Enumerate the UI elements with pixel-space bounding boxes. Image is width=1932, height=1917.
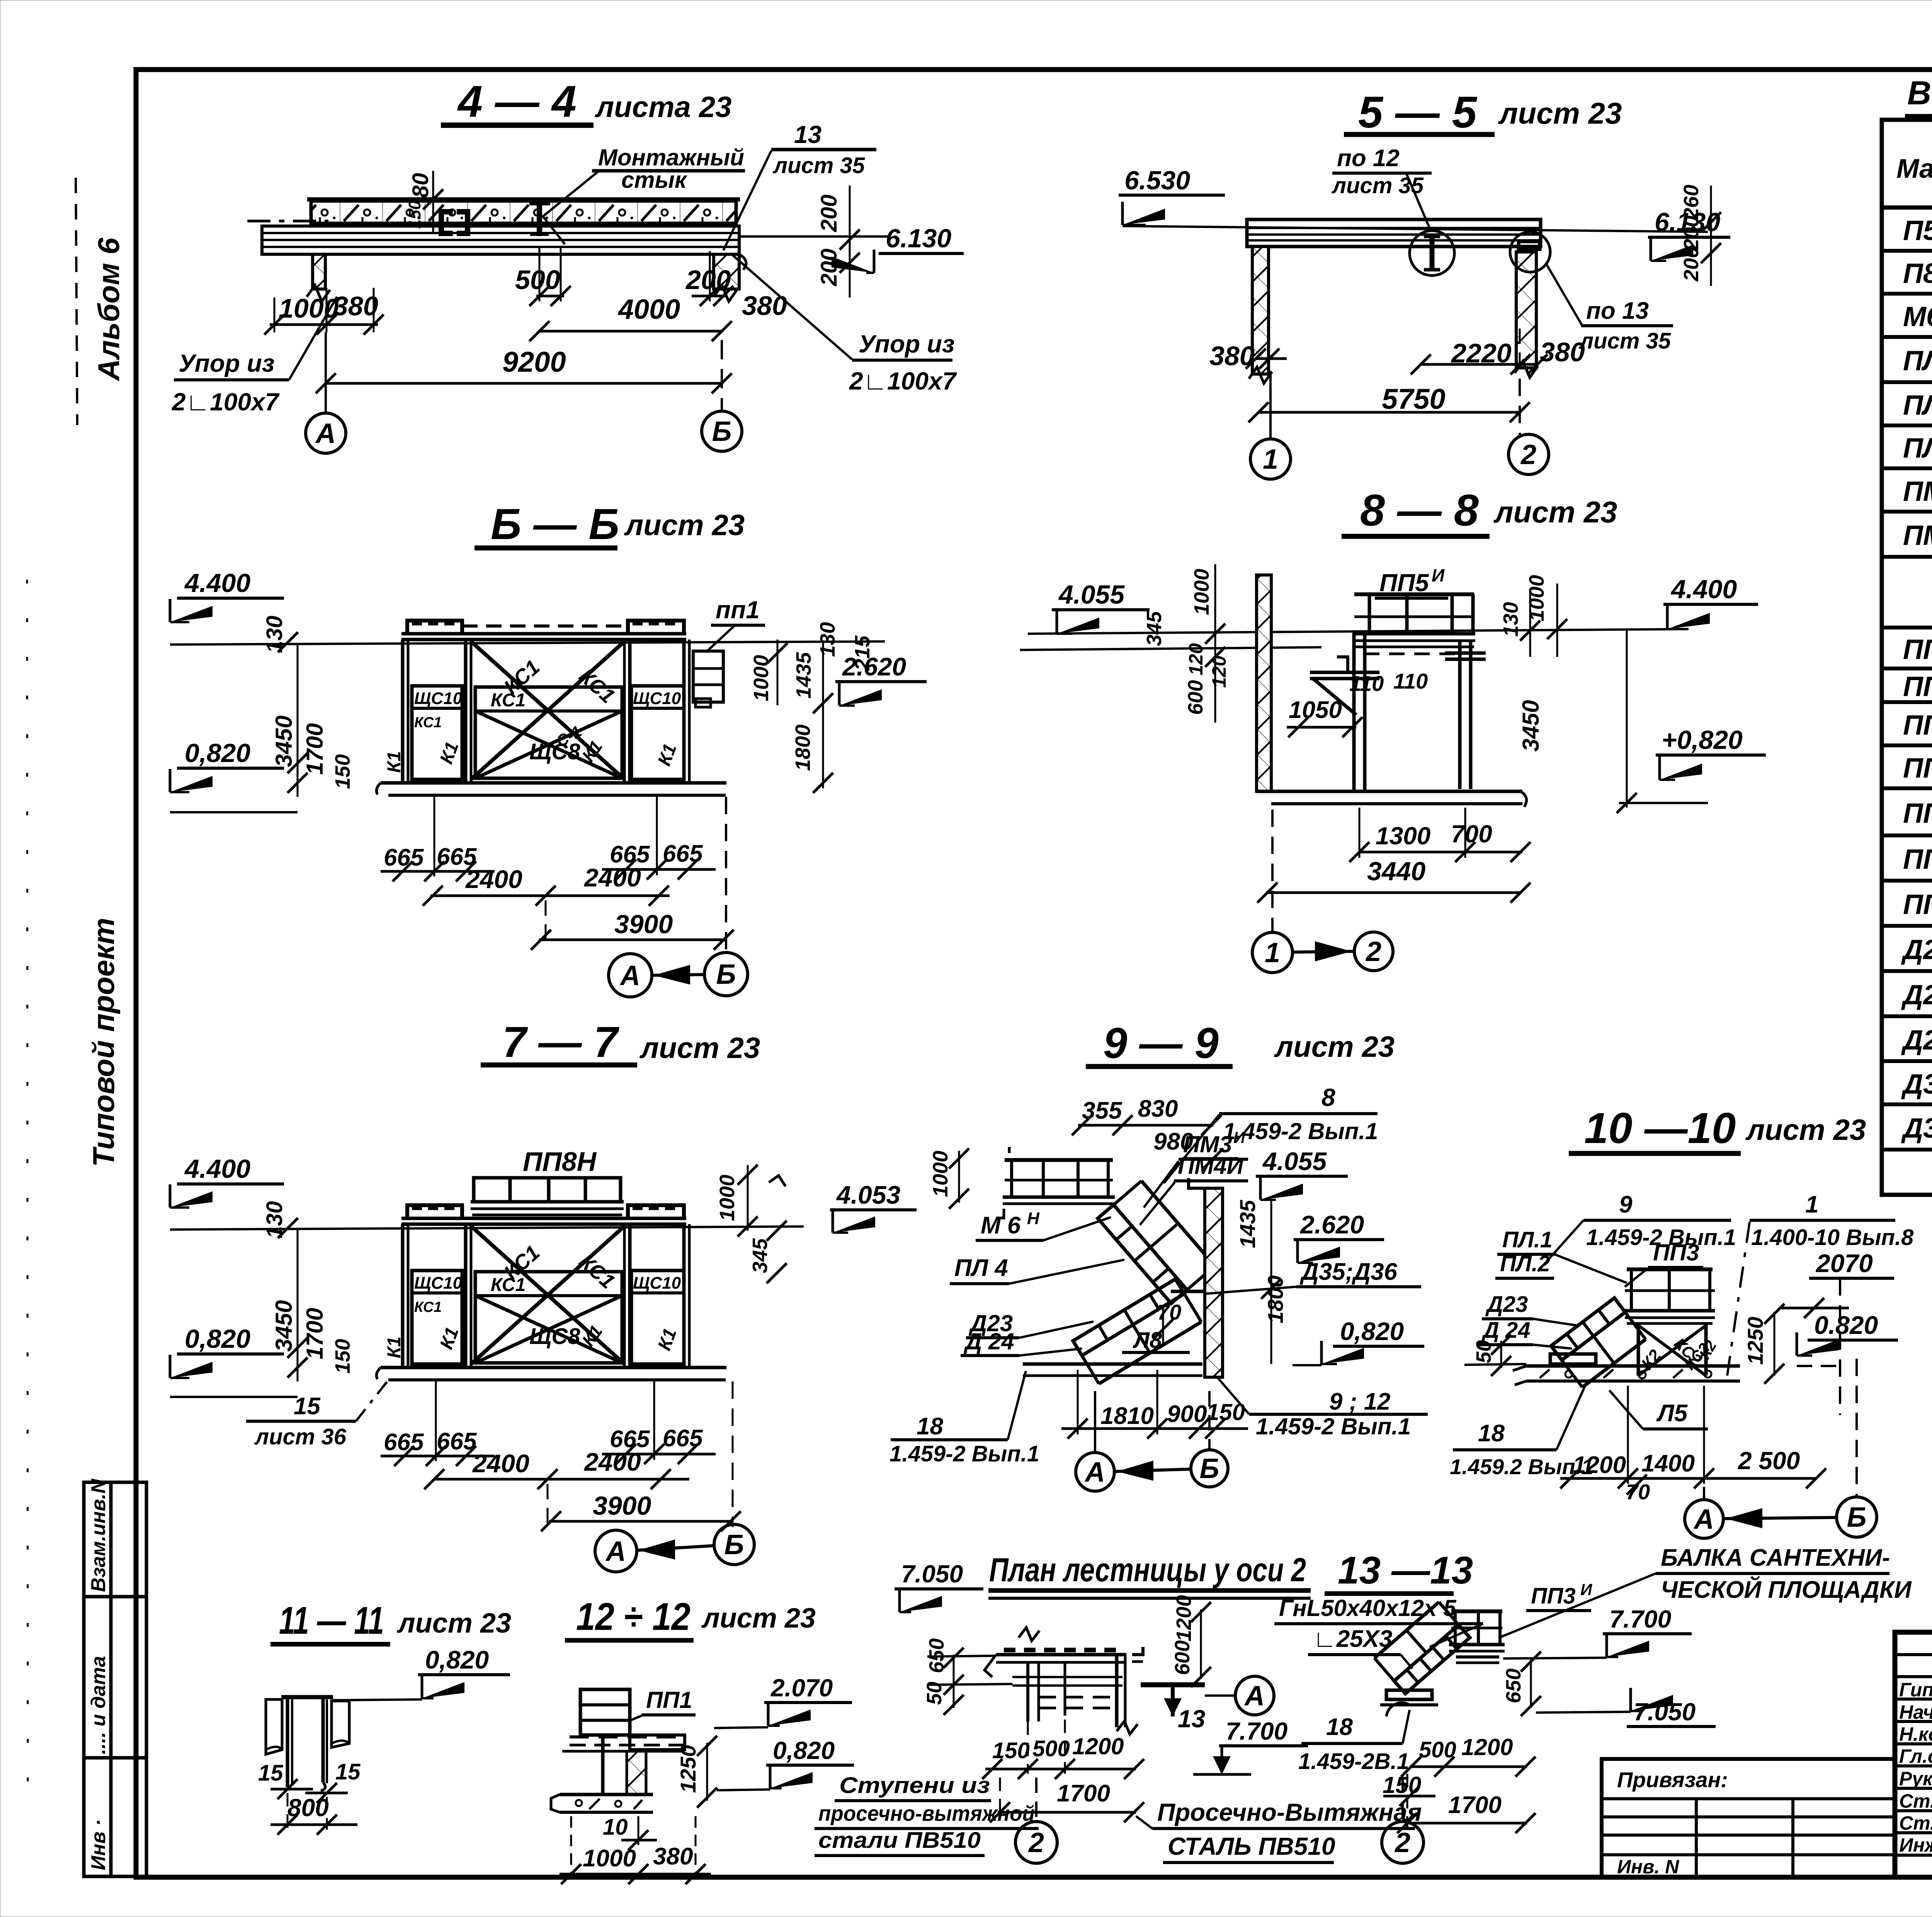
svg-text:ПП10: ПП10	[1903, 889, 1932, 920]
axis circles	[1094, 1391, 1096, 1452]
middle cell box ЩС8	[475, 687, 622, 778]
plan drawing: deck strip with steps	[996, 1653, 1126, 1657]
svg-text:Привязан:: Привязан:	[1617, 1767, 1728, 1792]
svg-text:3440: 3440	[1367, 857, 1425, 886]
level line top	[170, 641, 885, 645]
svg-text:2: 2	[1520, 439, 1536, 470]
svg-text:по 13: по 13	[1586, 298, 1649, 324]
svg-text:1.459-2 Вып.1: 1.459-2 Вып.1	[1223, 1118, 1378, 1144]
svg-text:Инв. N: Инв. N	[1617, 1856, 1679, 1878]
svg-text:380: 380	[1540, 337, 1585, 367]
svg-text:ПМ4ч: ПМ4ч	[1903, 518, 1932, 551]
svg-text:1700: 1700	[1057, 1780, 1110, 1807]
svg-text:600: 600	[1184, 680, 1207, 715]
svg-text:1810: 1810	[1100, 1403, 1154, 1429]
middle cell box	[475, 1272, 622, 1363]
svg-text:ПЛ1: ПЛ1	[1903, 345, 1932, 376]
svg-text:0,820: 0,820	[185, 1324, 250, 1354]
svg-text:КС1: КС1	[491, 1275, 526, 1295]
svg-text:Н: Н	[1027, 1209, 1040, 1228]
svg-text:2070: 2070	[1815, 1249, 1873, 1277]
svg-text:1700: 1700	[302, 723, 328, 775]
wall hatched	[1257, 575, 1271, 791]
svg-text:А: А	[1244, 1681, 1265, 1711]
svg-text:6.130: 6.130	[886, 224, 951, 253]
right column hatched	[1516, 252, 1536, 368]
axis circles	[1703, 1487, 1705, 1499]
big X brace KC1	[471, 641, 624, 779]
axis circle 2	[1401, 1778, 1404, 1821]
svg-text:1800: 1800	[791, 725, 815, 771]
landing platform right	[1451, 1609, 1502, 1613]
axis circles А Б	[545, 900, 547, 945]
flight lower end pad	[1550, 1354, 1596, 1364]
svg-text:6.530: 6.530	[1124, 166, 1190, 195]
svg-text:лист 23: лист 23	[701, 1603, 816, 1634]
svg-text:18: 18	[1478, 1420, 1505, 1447]
svg-text:ЩС10: ЩС10	[414, 1274, 463, 1293]
svg-text:Б: Б	[712, 416, 732, 447]
mid landing small	[1171, 1290, 1205, 1293]
svg-text:200: 200	[816, 194, 842, 232]
left cell box ЩС10	[412, 686, 462, 779]
svg-text:Марка: Марка	[1896, 153, 1932, 184]
vertical post in box	[601, 1735, 605, 1795]
svg-text:13: 13	[794, 121, 821, 148]
level line right of beam	[739, 235, 889, 238]
base lines	[381, 781, 726, 785]
ground line	[1023, 1362, 1202, 1366]
svg-text:18: 18	[917, 1413, 943, 1440]
svg-text:1800: 1800	[1263, 1275, 1287, 1323]
svg-text:Гл.спец.: Гл.спец.	[1899, 1745, 1932, 1767]
svg-text:ПП1: ПП1	[1903, 634, 1932, 665]
svg-text:11 — 11: 11 — 11	[279, 1599, 384, 1642]
svg-text:ПП5ч: ПП5ч	[1903, 796, 1932, 829]
svg-text:200: 200	[1680, 247, 1703, 282]
base lines	[381, 1366, 726, 1369]
svg-text:Нач.отд: Нач.отд	[1899, 1701, 1932, 1723]
left margin tick marks	[76, 178, 77, 425]
svg-text:ЩС10: ЩС10	[633, 1274, 681, 1293]
svg-text:200: 200	[1680, 216, 1703, 251]
svg-text:1: 1	[1263, 444, 1278, 475]
svg-text:2: 2	[1365, 936, 1381, 967]
svg-text:2: 2	[1394, 1827, 1410, 1858]
left column hatched	[1252, 247, 1269, 374]
svg-text:А: А	[1693, 1504, 1714, 1535]
svg-text:стали ПВ510: стали ПВ510	[818, 1828, 981, 1853]
svg-text:2400: 2400	[583, 1448, 641, 1476]
svg-text:пп1: пп1	[716, 596, 760, 624]
svg-text:2∟100х7: 2∟100х7	[849, 367, 957, 395]
beam band	[1247, 219, 1541, 247]
stair flight	[1551, 1298, 1625, 1360]
svg-text:1000: 1000	[716, 1175, 739, 1221]
big X brace	[471, 1226, 624, 1364]
svg-text:1400: 1400	[1641, 1450, 1695, 1477]
section marker 13 left	[1141, 1682, 1205, 1687]
top chord	[401, 632, 686, 636]
svg-text:665: 665	[663, 1425, 703, 1452]
axis circle 2	[1035, 1778, 1037, 1821]
svg-text:П8: П8	[1903, 258, 1932, 289]
svg-text:просечно-вытяжной: просечно-вытяжной	[818, 1801, 1035, 1825]
svg-text:по 12: по 12	[1337, 145, 1400, 172]
hatched concrete right	[332, 1701, 349, 1747]
svg-text:ПМ3и: ПМ3и	[1903, 474, 1932, 507]
svg-text:1000: 1000	[1525, 575, 1548, 621]
svg-text:15: 15	[258, 1761, 283, 1786]
svg-text:∟25Х3: ∟25Х3	[1313, 1626, 1393, 1652]
svg-text:1435: 1435	[792, 652, 815, 699]
channel top flange	[281, 1695, 333, 1699]
svg-text:665: 665	[663, 840, 703, 867]
svg-text:2: 2	[1028, 1827, 1044, 1858]
left support column hatched	[313, 254, 325, 289]
svg-text:150: 150	[331, 1339, 354, 1374]
svg-text:ПП3ч: ПП3ч	[1903, 750, 1932, 784]
svg-text:ПП3: ПП3	[1903, 710, 1932, 741]
svg-text:70: 70	[1157, 1300, 1181, 1324]
svg-text:ПЛ 4: ПЛ 4	[954, 1255, 1008, 1281]
svg-text:лист 23: лист 23	[397, 1608, 511, 1639]
svg-text:Д35;Д36: Д35;Д36	[1299, 1259, 1398, 1285]
svg-text:2∟100х7: 2∟100х7	[172, 388, 280, 416]
svg-text:18: 18	[1326, 1714, 1353, 1740]
svg-text:лист 23: лист 23	[624, 509, 745, 542]
svg-text:Альбом 6: Альбом 6	[92, 238, 126, 381]
svg-text:ЩС10: ЩС10	[414, 689, 463, 708]
svg-text:150: 150	[992, 1738, 1030, 1763]
svg-text:ПЛ2: ПЛ2	[1903, 390, 1932, 421]
svg-text:2 500: 2 500	[1738, 1447, 1800, 1475]
svg-text:Просечно-Вытяжная: Просечно-Вытяжная	[1157, 1798, 1422, 1826]
svg-text:лист 36: лист 36	[254, 1424, 347, 1449]
top corner channels	[407, 621, 462, 632]
svg-text:Д23: Д23	[1485, 1292, 1528, 1317]
wall bracket	[1310, 671, 1379, 674]
svg-text:9 ; 12: 9 ; 12	[1329, 1388, 1391, 1415]
svg-text:Ступени из: Ступени из	[839, 1773, 990, 1798]
svg-text:А: А	[315, 418, 336, 449]
svg-text:3450: 3450	[1518, 700, 1544, 752]
svg-text:Б: Б	[1847, 1502, 1867, 1533]
svg-text:830: 830	[1138, 1095, 1178, 1122]
svg-text:1: 1	[1805, 1191, 1818, 1218]
svg-text:КС1: КС1	[414, 1299, 442, 1315]
svg-text:0.820: 0.820	[1814, 1311, 1878, 1339]
svg-text:М6и: М6и	[1903, 299, 1932, 332]
svg-text:1300: 1300	[1376, 822, 1430, 850]
column top plate right	[1445, 651, 1486, 655]
support columns	[1352, 634, 1356, 790]
svg-text:ПЛ.2: ПЛ.2	[1500, 1251, 1550, 1276]
svg-text:А: А	[619, 960, 640, 991]
svg-text:Н.контр: Н.контр	[1899, 1723, 1932, 1745]
svg-text:1000: 1000	[929, 1151, 952, 1197]
table outer & header grid	[1882, 120, 1932, 1195]
svg-text:1000: 1000	[583, 1845, 636, 1872]
svg-text:Д36: Д36	[1901, 1113, 1932, 1144]
svg-text:Упор из: Упор из	[179, 349, 275, 377]
svg-text:1250: 1250	[676, 1745, 700, 1793]
channel verticals	[286, 1697, 289, 1787]
svg-text:1.459-2В.1: 1.459-2В.1	[1298, 1749, 1409, 1774]
svg-text:1200: 1200	[1461, 1734, 1513, 1760]
bottom level line	[170, 811, 298, 813]
svg-text:Д35: Д35	[1901, 1069, 1932, 1100]
platform on posts	[1627, 1267, 1713, 1271]
svg-text:БАЛКА САНТЕХНИ-: БАЛКА САНТЕХНИ-	[1661, 1544, 1890, 1571]
svg-text:лист 35: лист 35	[1331, 173, 1424, 198]
svg-text:200: 200	[685, 265, 731, 295]
svg-text:Б: Б	[716, 959, 736, 990]
detail circle 1 I-rail	[1410, 231, 1454, 276]
svg-text:ПП8Н: ПП8Н	[523, 1146, 597, 1177]
svg-text:СТАЛЬ ПВ510: СТАЛЬ ПВ510	[1168, 1832, 1335, 1860]
svg-text:ПМ4И: ПМ4И	[1178, 1153, 1244, 1179]
svg-text:И: И	[1233, 1128, 1245, 1146]
svg-text:1700: 1700	[1448, 1792, 1502, 1818]
svg-text:Д24: Д24	[1901, 980, 1932, 1010]
svg-text:Л5: Л5	[1656, 1400, 1688, 1427]
platform railing box	[474, 1178, 621, 1202]
level line	[1122, 226, 1708, 232]
svg-text:7.700: 7.700	[1226, 1717, 1287, 1745]
svg-text:3900: 3900	[593, 1491, 651, 1521]
svg-text:ПП1: ПП1	[646, 1687, 692, 1713]
svg-text:Д23: Д23	[1901, 934, 1932, 965]
posts	[401, 1224, 405, 1368]
svg-text:650: 650	[1502, 1669, 1525, 1703]
svg-text:380: 380	[333, 291, 378, 321]
svg-text:1435: 1435	[1235, 1200, 1260, 1248]
svg-text:2.620: 2.620	[1299, 1210, 1364, 1239]
svg-text:+0,820: +0,820	[1662, 725, 1743, 755]
axis circle A	[325, 332, 327, 413]
svg-text:13 —13: 13 —13	[1338, 1549, 1473, 1592]
svg-text:Инженер: Инженер	[1899, 1834, 1932, 1856]
wall hatched	[1205, 1188, 1223, 1377]
railing box	[580, 1689, 630, 1735]
svg-text:ПП3: ПП3	[1531, 1584, 1576, 1609]
svg-text:ЧЕСКОЙ ПЛОЩАДКИ: ЧЕСКОЙ ПЛОЩАДКИ	[1661, 1576, 1912, 1603]
svg-text:Ведомость элементов по сер: Ведомость элементов по серии 1-459-2. Вы…	[1907, 75, 1932, 112]
svg-text:4.055: 4.055	[1058, 580, 1125, 609]
svg-text:260: 260	[1680, 185, 1703, 220]
svg-text:380: 380	[742, 291, 787, 321]
floor band bottom	[560, 1793, 653, 1796]
svg-text:345: 345	[748, 1238, 772, 1273]
svg-text:1700: 1700	[302, 1308, 328, 1359]
svg-text:ПП3: ПП3	[1653, 1240, 1699, 1266]
svg-text:Монтажный: Монтажный	[598, 145, 744, 170]
svg-text:1050: 1050	[1289, 697, 1342, 723]
svg-text:ПЛ4: ПЛ4	[1903, 433, 1932, 464]
svg-text:600: 600	[1171, 1640, 1194, 1675]
svg-text:13: 13	[1178, 1705, 1205, 1733]
svg-text:130: 130	[1499, 602, 1522, 637]
svg-text:0,820: 0,820	[1340, 1317, 1404, 1345]
lower stair flight	[1073, 1279, 1184, 1356]
svg-text:1000: 1000	[1190, 569, 1213, 615]
svg-text:500: 500	[515, 265, 560, 295]
svg-text:4000: 4000	[617, 294, 680, 325]
axis circle Б	[721, 340, 723, 410]
svg-text:0,820: 0,820	[425, 1645, 489, 1674]
svg-text:Б — Б: Б — Б	[491, 500, 619, 548]
svg-text:Д25: Д25	[1901, 1025, 1932, 1056]
svg-text:.... и дата: .... и дата	[87, 1656, 110, 1754]
svg-text:лист 23: лист 23	[1745, 1114, 1866, 1146]
svg-text:7 — 7: 7 — 7	[502, 1018, 620, 1066]
svg-text:План лестницы у оси 2: План лестницы у оси 2	[989, 1551, 1306, 1589]
svg-text:7.050: 7.050	[901, 1560, 963, 1588]
svg-text:665: 665	[384, 1429, 424, 1456]
svg-text:А: А	[605, 1536, 626, 1567]
svg-text:1200: 1200	[1573, 1452, 1626, 1478]
upper landing railing	[1005, 1158, 1113, 1162]
svg-text:130: 130	[816, 622, 839, 657]
svg-text:4.400: 4.400	[184, 1154, 250, 1184]
svg-text:665: 665	[384, 844, 424, 871]
svg-text:1000: 1000	[279, 293, 339, 323]
svg-text:Б: Б	[724, 1529, 744, 1560]
svg-text:10 —10: 10 —10	[1584, 1104, 1736, 1152]
svg-text:лист 35: лист 35	[1578, 328, 1671, 354]
svg-text:9200: 9200	[502, 346, 566, 378]
svg-text:3900: 3900	[614, 910, 673, 939]
svg-text:4.053: 4.053	[836, 1180, 900, 1209]
svg-text:лист 23: лист 23	[1498, 96, 1622, 130]
svg-text:М 6: М 6	[981, 1212, 1021, 1239]
svg-text:5750: 5750	[1382, 383, 1446, 415]
hatched concrete left	[266, 1699, 282, 1754]
precast slab with hatch	[311, 201, 736, 223]
axis circles 1 2	[1269, 371, 1272, 440]
left bottom stamp column	[84, 1482, 146, 1876]
svg-text:2.620: 2.620	[842, 652, 906, 681]
level lines	[1028, 629, 1689, 634]
svg-text:лист 23: лист 23	[639, 1032, 760, 1065]
posts	[401, 640, 405, 783]
svg-text:8: 8	[1321, 1084, 1335, 1111]
svg-text:Д 24: Д 24	[963, 1328, 1014, 1354]
svg-text:Рук.гр.: Рук.гр.	[1899, 1768, 1932, 1789]
svg-text:0,820: 0,820	[185, 738, 250, 768]
svg-text:И: И	[1580, 1580, 1592, 1599]
svg-text:200: 200	[816, 248, 842, 286]
svg-text:120: 120	[1185, 643, 1207, 675]
svg-text:Б: Б	[1200, 1453, 1219, 1484]
svg-text:Л8: Л8	[1133, 1328, 1162, 1353]
svg-text:2400: 2400	[472, 1449, 529, 1478]
floor slab band	[570, 1735, 685, 1738]
svg-text:КС1: КС1	[414, 714, 442, 731]
svg-text:К1: К1	[384, 1337, 405, 1358]
platform deck	[471, 1200, 624, 1204]
marker line to А	[1205, 1694, 1236, 1697]
svg-text:4.055: 4.055	[1262, 1147, 1327, 1175]
rail I-beam	[537, 201, 542, 236]
svg-text:0,820: 0,820	[773, 1737, 835, 1764]
svg-text:110: 110	[1349, 671, 1384, 696]
platform railing	[1354, 592, 1474, 596]
top corner channels	[407, 1205, 462, 1217]
N break marks	[1019, 1628, 1039, 1641]
svg-text:345: 345	[1143, 611, 1166, 646]
svg-text:1200: 1200	[1172, 1595, 1196, 1641]
svg-text:листа 23: листа 23	[594, 91, 731, 124]
posts with X brace	[1637, 1323, 1640, 1376]
wall strip	[627, 1751, 646, 1795]
right support column hatched	[714, 254, 739, 289]
montage joint C-plates	[441, 212, 453, 233]
svg-text:150: 150	[331, 754, 354, 789]
svg-text:80: 80	[408, 173, 433, 198]
svg-text:А: А	[1084, 1457, 1105, 1488]
detail circle 2	[1510, 232, 1550, 272]
upper stair flight	[1098, 1205, 1187, 1303]
svg-text:1: 1	[1265, 937, 1280, 968]
svg-text:3450: 3450	[271, 716, 297, 767]
svg-text:ЩС8: ЩС8	[529, 1324, 580, 1349]
svg-text:3450: 3450	[271, 1300, 297, 1352]
svg-text:4.400: 4.400	[184, 568, 250, 598]
svg-text:ЩС10: ЩС10	[633, 689, 681, 708]
dash-dot rail line left	[247, 220, 328, 223]
girder band	[262, 226, 739, 254]
axis circles	[547, 1484, 549, 1530]
svg-text:И: И	[1432, 565, 1445, 585]
svg-text:15: 15	[335, 1759, 361, 1784]
svg-text:Взам.инв.N: Взам.инв.N	[87, 1478, 110, 1592]
svg-text:1.400-10 Вып.8: 1.400-10 Вып.8	[1751, 1225, 1914, 1250]
svg-text:7.700: 7.700	[1609, 1605, 1671, 1633]
axis circles 1 2	[1271, 810, 1274, 932]
base floor	[1257, 790, 1522, 793]
svg-text:110: 110	[1393, 669, 1428, 693]
svg-text:9: 9	[1619, 1191, 1633, 1218]
svg-text:лист 23: лист 23	[1274, 1031, 1395, 1063]
ПП1 railing right	[693, 651, 723, 702]
top chord	[401, 1217, 686, 1220]
platform deck	[1352, 632, 1475, 636]
svg-text:стык: стык	[621, 167, 687, 193]
svg-text:700: 700	[1451, 820, 1492, 848]
svg-text:лист 35: лист 35	[772, 153, 865, 178]
svg-text:4 — 4: 4 — 4	[457, 77, 577, 126]
svg-text:10: 10	[603, 1815, 628, 1840]
svg-text:КС1: КС1	[491, 690, 526, 711]
svg-text:1.459-2 Вып.1: 1.459-2 Вып.1	[1256, 1414, 1411, 1439]
svg-text:Типовой проект: Типовой проект	[87, 918, 121, 1167]
svg-text:Инв ·: Инв ·	[87, 1819, 110, 1870]
svg-text:ПЛ.1: ПЛ.1	[1502, 1227, 1553, 1252]
svg-text:ПП1ч: ПП1ч	[1903, 669, 1932, 702]
svg-text:380: 380	[653, 1843, 693, 1870]
step tick marks	[1004, 1648, 1015, 1652]
svg-text:П5: П5	[1903, 215, 1932, 246]
svg-text:Гип: Гип	[1899, 1679, 1932, 1701]
svg-text:4.400: 4.400	[1670, 575, 1737, 604]
svg-text:Упор из: Упор из	[859, 330, 955, 358]
svg-text:12 ÷ 12: 12 ÷ 12	[576, 1595, 690, 1638]
base beam	[1386, 1690, 1432, 1699]
ground slab with dots	[1526, 1364, 1740, 1368]
svg-text:1.459-2 Вып.1: 1.459-2 Вып.1	[889, 1441, 1039, 1466]
